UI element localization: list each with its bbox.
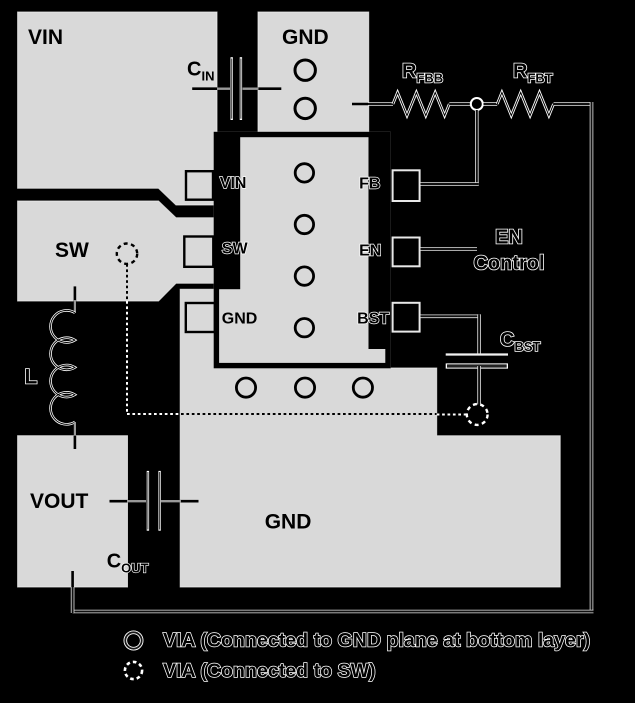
wire: junction to RFBT: [484, 102, 498, 106]
capacitor COUT: [110, 471, 199, 531]
inductor L: [51, 300, 75, 437]
wire: pour edge to RFBB (on black): [368, 102, 393, 106]
pin pad SW (left): [184, 237, 213, 267]
thermal via 3 (inside IC): [295, 267, 313, 285]
left pin-label black band: [219, 137, 241, 289]
svg-text:VIN: VIN: [28, 26, 63, 49]
dashed SW trace horizontal (on pour): [181, 413, 437, 415]
wire: CBST to SW via: [477, 366, 481, 405]
VOUT copper pour: [18, 436, 128, 587]
via SW (dashed, in SW pour): [117, 244, 137, 264]
svg-text:SW: SW: [222, 241, 249, 258]
wire: RFBT to right rail: [554, 102, 592, 106]
capacitor CBST: [446, 355, 508, 367]
legend via SW: [125, 662, 142, 679]
resistor RFBB: [393, 92, 449, 115]
svg-text:FB: FB: [359, 176, 380, 193]
svg-text:L: L: [25, 366, 38, 389]
svg-text:Control: Control: [473, 253, 544, 275]
svg-text:VIN: VIN: [220, 175, 247, 192]
GND via B (top pour): [295, 98, 315, 118]
GND via D (bottom pour): [295, 378, 314, 397]
dashed SW trace vertical (on black): [126, 301, 128, 414]
wire: bottom rail horizontal: [73, 610, 594, 614]
wire: BST pin horizontal: [421, 314, 480, 318]
node junction FB: [471, 98, 483, 110]
pin pad GND (left): [186, 303, 215, 332]
thermal via 1 (inside IC): [295, 164, 313, 182]
svg-text:SW: SW: [55, 239, 89, 262]
inductor L lead bottom (on pour): [74, 436, 77, 449]
pin pad EN (right): [393, 238, 420, 267]
dashed SW trace vertical (on pour): [126, 264, 128, 301]
svg-text:EN: EN: [495, 227, 523, 249]
VIN copper pour: [18, 12, 217, 205]
inductor L lead top (on pour): [74, 286, 77, 302]
wire: EN pin horizontal: [421, 247, 478, 251]
IC U1 body: [214, 132, 391, 368]
wire: RFBB to junction: [449, 102, 470, 106]
pin pad FB (right): [393, 170, 420, 201]
svg-text:VIA (Connected to SW): VIA (Connected to SW): [163, 660, 376, 682]
pin pad BST (right): [393, 303, 420, 332]
legend via GND: [125, 632, 141, 648]
svg-text:GND: GND: [282, 26, 329, 49]
wire: VOUT pour to bottom rail (black bg part): [71, 586, 75, 613]
GND via E (bottom pour): [353, 378, 372, 397]
SW copper pour: [18, 201, 214, 301]
GND via A (top pour): [295, 60, 315, 80]
dashed SW trace horizontal (on black): [127, 413, 181, 415]
thermal via 4 (inside IC): [295, 319, 313, 337]
wire: FB pin horizontal: [421, 182, 479, 186]
svg-text:VOUT: VOUT: [30, 490, 89, 513]
GND via C (bottom pour): [236, 378, 255, 397]
wire: FB vertical from junction: [475, 110, 479, 184]
thermal via 2 (inside IC): [295, 215, 313, 233]
IC border: [216, 135, 388, 366]
wire: BST down to CBST: [477, 314, 481, 354]
GND copper pour (top): [258, 12, 369, 133]
GND copper pour (bottom): [180, 289, 560, 587]
svg-text:BST: BST: [357, 311, 389, 328]
svg-text:VIA (Connected to GND plane at: VIA (Connected to GND plane at bottom la…: [163, 630, 590, 652]
right pin-label black band: [369, 137, 386, 349]
svg-text:GND: GND: [222, 311, 258, 328]
svg-text:GND: GND: [265, 511, 312, 534]
wire: GND via B to RFBB (black over pour): [352, 103, 369, 106]
pin pad VIN (left): [186, 171, 213, 200]
capacitor CIN: [192, 57, 281, 120]
wire: VOUT pour drop (on pour): [71, 571, 74, 587]
svg-text:EN: EN: [359, 243, 381, 260]
resistor RFBT: [497, 92, 553, 115]
via SW (dashed, at CBST): [467, 404, 488, 425]
dashed SW trace horizontal (on black, to via): [437, 414, 466, 416]
wire: right rail vertical: [590, 102, 594, 612]
